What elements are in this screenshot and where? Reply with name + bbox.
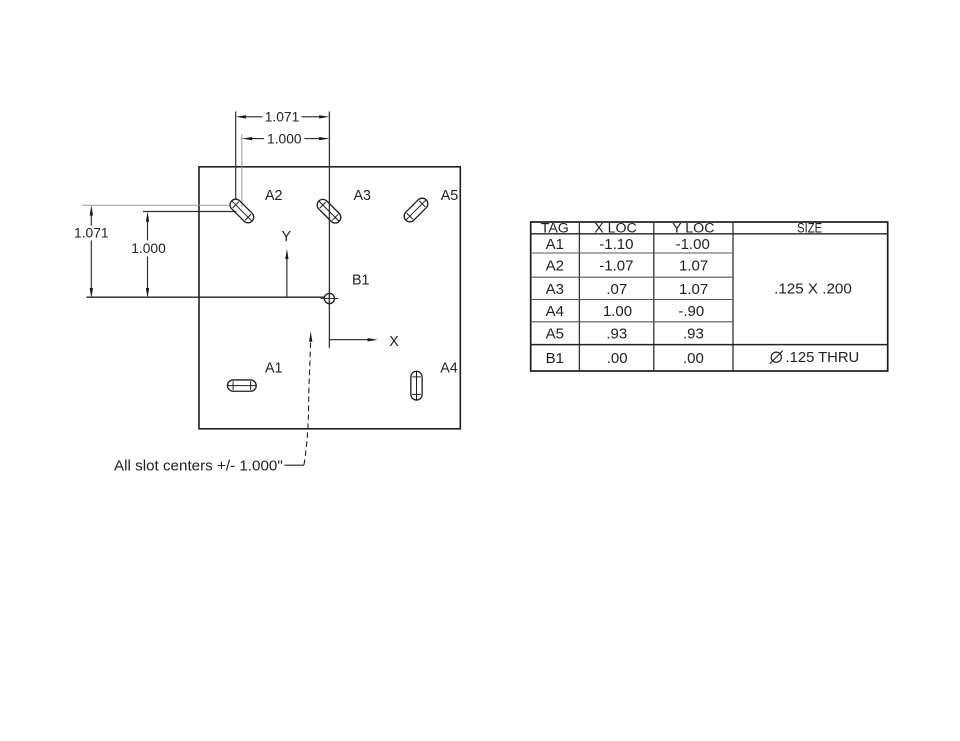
svg-text:X LOC: X LOC: [594, 220, 637, 236]
svg-text:.125 X .200: .125 X .200: [774, 281, 852, 298]
svg-text:-1.00: -1.00: [676, 236, 710, 253]
svg-text:.07: .07: [606, 281, 627, 298]
svg-text:SIZE: SIZE: [797, 220, 822, 236]
svg-text:A1: A1: [546, 236, 564, 253]
svg-text:.93: .93: [683, 326, 704, 343]
svg-text:1.000: 1.000: [131, 241, 166, 256]
svg-text:A5: A5: [441, 188, 459, 204]
svg-text:A4: A4: [546, 303, 564, 320]
svg-text:.93: .93: [606, 326, 627, 343]
svg-text:B1: B1: [352, 273, 370, 289]
svg-text:.00: .00: [683, 350, 704, 367]
svg-text:1.000: 1.000: [267, 131, 302, 146]
svg-text:B1: B1: [546, 350, 564, 367]
svg-text:1.071: 1.071: [265, 109, 300, 124]
svg-text:.00: .00: [607, 350, 628, 367]
svg-text:1.071: 1.071: [74, 226, 109, 241]
svg-text:A5: A5: [546, 326, 564, 343]
svg-text:-1.10: -1.10: [599, 236, 633, 253]
svg-text:A2: A2: [265, 188, 283, 204]
svg-text:A3: A3: [353, 188, 371, 204]
svg-text:Y: Y: [282, 229, 292, 245]
svg-text:TAG: TAG: [541, 220, 569, 236]
svg-text:X: X: [389, 334, 399, 350]
svg-text:Y LOC: Y LOC: [672, 220, 714, 236]
svg-text:All slot centers +/- 1.000": All slot centers +/- 1.000": [114, 458, 283, 475]
svg-text:A1: A1: [265, 361, 283, 377]
svg-text:1.07: 1.07: [679, 281, 708, 298]
svg-text:A3: A3: [546, 281, 564, 298]
svg-text:A4: A4: [440, 361, 458, 377]
svg-text:1.07: 1.07: [679, 258, 708, 275]
svg-text:.125 THRU: .125 THRU: [786, 350, 860, 366]
svg-text:A2: A2: [546, 258, 564, 275]
svg-text:1.00: 1.00: [603, 303, 632, 320]
svg-text:-.90: -.90: [678, 303, 704, 320]
svg-text:-1.07: -1.07: [599, 258, 633, 275]
